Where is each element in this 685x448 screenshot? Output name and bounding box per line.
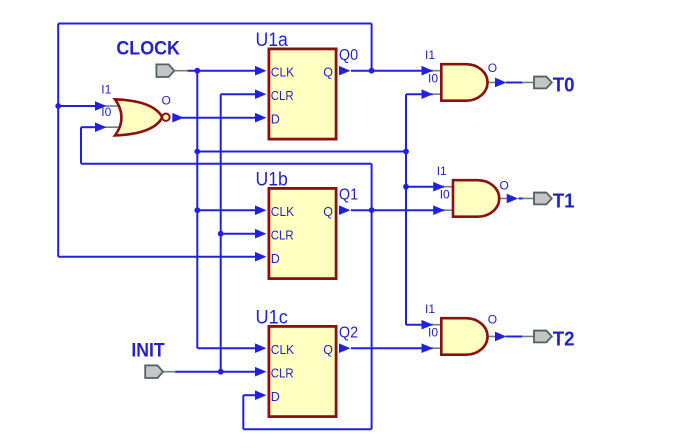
junction dot Q0 left vertical / NOR.I1 bbox=[55, 103, 61, 109]
wire: Q1 feedback horizontal to NOR I0 bbox=[81, 163, 372, 165]
svg-text:T0: T0 bbox=[553, 75, 575, 97]
connector T1 pentagon bbox=[534, 193, 552, 205]
wire: U1c.D horizontal bbox=[243, 394, 257, 396]
connector INIT gray lead bbox=[163, 371, 176, 373]
svg-text:CLR: CLR bbox=[271, 89, 294, 103]
svg-text:I0: I0 bbox=[440, 187, 450, 201]
U1c input arrow CLR bbox=[255, 367, 267, 377]
AND gate 3 input stub I0 bbox=[430, 347, 442, 349]
AND gate 3 body bbox=[441, 318, 487, 355]
U1b input arrow D bbox=[255, 252, 267, 262]
svg-text:U1b: U1b bbox=[256, 169, 288, 190]
wire: AND2 output to T1 connector bbox=[519, 197, 524, 199]
AND gate 2 body bbox=[453, 180, 499, 217]
NOR gate body bbox=[115, 99, 162, 135]
wire: Q2 output row U1c.Q to AND3.I0 bbox=[351, 347, 433, 349]
svg-text:Q1: Q1 bbox=[339, 187, 358, 204]
connector INIT pentagon bbox=[145, 365, 163, 378]
wire: U1b.CLR horizontal bbox=[221, 233, 257, 235]
junction dot INIT row bbox=[218, 369, 224, 375]
U1a input arrow CLR bbox=[255, 89, 267, 99]
svg-text:D: D bbox=[271, 112, 280, 126]
wire: CLOCK connector to U1a.CLK bbox=[187, 70, 257, 72]
wire: Q1 feedback vertical (to NOR and to U1c.D) bbox=[371, 164, 373, 430]
svg-text:O: O bbox=[162, 93, 171, 107]
AND3 input arrow I0 bbox=[422, 343, 434, 353]
wire: CLOCK vertical trunk bbox=[196, 71, 198, 349]
AND1 output arrow bbox=[495, 78, 507, 88]
junction dot AND2.I1 tap bbox=[403, 184, 409, 190]
svg-text:O: O bbox=[488, 313, 497, 327]
AND2 output arrow bbox=[507, 194, 519, 204]
junction dot Q0 row bbox=[369, 68, 375, 74]
wire: NOR output to U1a.D bbox=[181, 117, 257, 119]
svg-text:CLR: CLR bbox=[271, 366, 294, 380]
wire: AND column vertical bbox=[405, 94, 407, 325]
connector CLOCK pentagon bbox=[156, 64, 174, 77]
wire: Q0 net top feedback horizontal bbox=[58, 23, 371, 25]
U1b input arrow CLR bbox=[255, 229, 267, 239]
svg-text:CLR: CLR bbox=[271, 228, 294, 242]
junction dot CLOCK at U1a.CLK bbox=[194, 68, 200, 74]
junction dot CLOCK branch left bbox=[194, 149, 200, 155]
wire: AND3 output to T2 connector bbox=[506, 335, 523, 337]
AND gate 1 input stub I1 bbox=[430, 70, 442, 72]
svg-text:Q0: Q0 bbox=[339, 47, 359, 64]
wire: AND2.I1 horizontal bbox=[406, 186, 445, 188]
wire: Q0 net right vertical drop to Q0 row bbox=[371, 24, 373, 71]
svg-text:T1: T1 bbox=[553, 191, 575, 213]
AND gate 2 output stub bbox=[499, 197, 510, 199]
U1b input arrow CLK bbox=[255, 205, 267, 215]
junction dot Q1 row bbox=[369, 207, 375, 213]
svg-text:I0: I0 bbox=[428, 325, 438, 339]
AND gate 2 input stub I1 bbox=[442, 186, 454, 188]
wire: U1c.D bottom feedback horizontal bbox=[243, 428, 371, 430]
NOR gate input stub I1 bbox=[103, 105, 119, 107]
AND gate 1 output stub bbox=[487, 81, 498, 83]
AND1 input arrow I1 bbox=[422, 66, 434, 76]
AND gate 3 input stub I1 bbox=[430, 324, 442, 326]
svg-text:CLOCK: CLOCK bbox=[116, 38, 179, 60]
flip-flop U1a body bbox=[269, 49, 336, 139]
AND gate 2 input stub I0 bbox=[442, 209, 454, 211]
wire: CLR vertical trunk (INIT net) bbox=[220, 94, 222, 372]
wire: U1c.D loop vertical bbox=[242, 395, 244, 429]
svg-text:I1: I1 bbox=[101, 83, 111, 97]
AND2 input arrow I1 bbox=[433, 182, 445, 192]
U1b output arrow Q bbox=[339, 205, 351, 215]
svg-text:I1: I1 bbox=[437, 164, 447, 178]
svg-text:T2: T2 bbox=[553, 329, 575, 351]
wire: U1a.CLR horizontal bbox=[221, 93, 257, 95]
wire: CLOCK branch horizontal to AND column bbox=[197, 151, 406, 153]
wire: INIT connector to U1c.CLR bbox=[175, 371, 257, 373]
wire: AND3.I1 horizontal bbox=[406, 324, 433, 326]
NOR input arrow I1 bbox=[95, 101, 107, 111]
AND1 input arrow I0 bbox=[422, 89, 434, 99]
svg-text:CLK: CLK bbox=[271, 65, 295, 79]
U1a input arrow D bbox=[255, 113, 267, 123]
svg-text:I0: I0 bbox=[101, 105, 111, 119]
svg-text:O: O bbox=[500, 179, 509, 193]
junction dot CLOCK at U1b.CLK bbox=[194, 207, 200, 213]
svg-text:U1c: U1c bbox=[256, 307, 288, 328]
wire: Q1 output row U1b.Q to AND2.I0 bbox=[351, 209, 445, 211]
wire: Q0 net left vertical bbox=[57, 24, 59, 257]
junction dot CLR at U1b.CLR bbox=[218, 231, 224, 237]
NOR input arrow I0 bbox=[95, 122, 107, 132]
svg-text:CLK: CLK bbox=[271, 343, 295, 357]
svg-text:I1: I1 bbox=[425, 48, 435, 62]
NOR gate input stub I0 bbox=[103, 126, 119, 128]
wire: U1b.CLK horizontal bbox=[197, 209, 257, 211]
connector T1 gray lead bbox=[522, 197, 535, 199]
AND gate 3 output stub bbox=[487, 335, 498, 337]
NOR gate output bubble bbox=[162, 114, 169, 121]
wire: U1c.CLK horizontal bbox=[197, 347, 257, 349]
svg-text:D: D bbox=[271, 252, 280, 266]
svg-text:Q: Q bbox=[323, 205, 333, 219]
U1c input arrow CLK bbox=[255, 343, 267, 353]
wire: NOR input I0 horizontal stub bbox=[81, 126, 97, 128]
connector T2 pentagon bbox=[534, 331, 552, 343]
wire: AND1 output to T0 connector bbox=[506, 81, 523, 83]
svg-text:D: D bbox=[271, 390, 280, 404]
svg-text:Q: Q bbox=[323, 65, 333, 79]
flip-flop U1b body bbox=[269, 188, 336, 278]
wire: AND1.I0 horizontal bbox=[406, 93, 433, 95]
wire: NOR I0 loop vertical bbox=[80, 127, 82, 164]
svg-text:Q2: Q2 bbox=[339, 325, 358, 342]
svg-text:U1a: U1a bbox=[256, 30, 289, 51]
junction dot CLOCK branch right bbox=[403, 149, 409, 155]
connector CLOCK gray lead bbox=[175, 70, 189, 72]
flip-flop U1c body bbox=[269, 326, 336, 416]
AND gate 1 body bbox=[441, 64, 487, 101]
U1c output arrow Q bbox=[339, 343, 351, 353]
svg-text:I1: I1 bbox=[425, 302, 435, 316]
svg-text:Q: Q bbox=[323, 343, 333, 357]
U1a output arrow Q bbox=[339, 66, 351, 76]
AND3 input arrow I1 bbox=[422, 320, 434, 330]
wire: Q0 output row U1a.Q to AND1.I1 bbox=[351, 70, 433, 72]
wire: NOR input I1 horizontal from left vertical bbox=[58, 105, 97, 107]
svg-text:O: O bbox=[488, 61, 497, 75]
wire: U1b.D horizontal from left vertical bbox=[58, 256, 256, 258]
connector T0 gray lead bbox=[522, 81, 535, 83]
svg-text:INIT: INIT bbox=[131, 339, 164, 361]
connector T0 pentagon bbox=[534, 77, 552, 89]
U1c input arrow D bbox=[255, 390, 267, 400]
NOR output arrow bbox=[172, 113, 184, 123]
AND gate 1 input stub I0 bbox=[430, 93, 442, 95]
AND3 output arrow bbox=[495, 332, 507, 342]
svg-text:I0: I0 bbox=[428, 71, 438, 85]
U1a input arrow CLK bbox=[255, 66, 267, 76]
AND2 input arrow I0 bbox=[433, 205, 445, 215]
connector T2 gray lead bbox=[522, 335, 535, 337]
svg-text:CLK: CLK bbox=[271, 205, 295, 219]
